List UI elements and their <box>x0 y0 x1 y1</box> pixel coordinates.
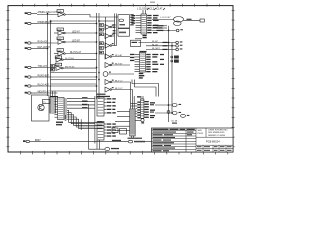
gate U2F <box>105 80 131 85</box>
ferrite bead FB3 <box>128 140 132 143</box>
border zone tick marks top <box>23 4 220 7</box>
U6 top entry wires <box>137 96 143 99</box>
IC U7 <box>97 122 107 141</box>
svg-text:RLY B7: RLY B7 <box>115 64 123 66</box>
label row above RN2 <box>50 96 58 97</box>
wire bus row extra1 <box>51 83 97 85</box>
text row above U5 <box>97 94 111 98</box>
svg-text:/CL2: /CL2 <box>149 8 155 11</box>
svg-text:DL PLS4: DL PLS4 <box>65 58 74 60</box>
gate U2B <box>105 34 115 39</box>
vertical bus line B <box>50 21 52 96</box>
U6 left wires <box>131 103 138 116</box>
gnd rail wire <box>89 148 106 150</box>
wire E2 to bus <box>37 23 97 25</box>
svg-text:RLY C7: RLY C7 <box>115 81 123 83</box>
svg-text:RL PLS A7: RL PLS A7 <box>70 51 82 54</box>
IC U8 <box>55 98 68 120</box>
oscillator circuit box B2 <box>131 40 141 46</box>
gate U1C buffer <box>57 37 65 44</box>
gate U1A buffer <box>57 10 65 17</box>
labels below U3 <box>143 35 147 39</box>
filter block FB1 <box>174 56 179 59</box>
connector pin P4 <box>176 48 179 51</box>
connector E4 input <box>25 46 51 50</box>
vertical net line H <box>116 14 118 46</box>
pin net labels U4 right <box>146 54 158 72</box>
IC U6 <box>141 99 144 118</box>
pin labels M1 <box>130 14 133 25</box>
label above U4 <box>140 51 147 52</box>
label box Q1 <box>43 100 51 104</box>
label U8 value <box>56 122 63 126</box>
connector J2 hatched <box>130 109 136 136</box>
svg-text:FSCM: FSCM <box>198 133 204 135</box>
connector E1 input <box>25 11 58 15</box>
border zone tick marks bottom <box>20 151 227 154</box>
wire below U3 <box>135 38 142 40</box>
wire bottom long <box>34 141 128 143</box>
transistor Q1 <box>38 104 44 110</box>
gate U2D <box>105 54 130 59</box>
svg-text:MD PLS4: MD PLS4 <box>65 66 75 68</box>
wire bottom cont <box>145 141 152 143</box>
vertical net line right E <box>168 26 170 122</box>
gate U1E buffer <box>55 56 96 62</box>
connector pin P5 <box>172 104 177 107</box>
J2 bottom label row <box>128 138 143 139</box>
capacitor block C1 <box>118 29 130 37</box>
pin labels U6 left <box>137 102 140 119</box>
J2 left wires <box>115 112 130 131</box>
terminator box TP1 <box>200 19 204 22</box>
svg-text:/CL47: /CL47 <box>156 8 163 11</box>
gate U1D buffer <box>54 49 65 56</box>
net label on bottom wire <box>112 140 121 141</box>
vlines U7 down <box>96 140 98 149</box>
connector E7 input <box>25 84 50 88</box>
gate input rail <box>105 17 107 59</box>
transistor Q3 <box>133 119 144 124</box>
pin labels U3 left <box>132 15 136 24</box>
wire hook B <box>135 80 157 97</box>
J2 bottom stubs <box>132 136 134 138</box>
resistor pack R2 <box>51 65 55 71</box>
wire bus row extra2 <box>51 90 97 92</box>
wire U1C out <box>65 41 96 43</box>
IC U3 <box>136 14 147 34</box>
small module K1 <box>112 128 127 134</box>
crystal Y2 <box>174 17 201 26</box>
svg-text:SIZE: SIZE <box>198 130 203 132</box>
wire clock net <box>152 19 174 21</box>
wire bus row 1 <box>51 72 97 74</box>
title block <box>152 128 234 152</box>
wire RL MD <box>146 48 176 50</box>
resistor network RN2 <box>50 97 56 113</box>
labels below U4 <box>139 73 145 79</box>
svg-text:CD 48: CD 48 <box>171 121 178 123</box>
border zone tick marks left <box>6 10 9 147</box>
wire rows to J pins <box>152 26 176 31</box>
connector pin P6 <box>172 112 177 115</box>
svg-text:PCB 89C04: PCB 89C04 <box>206 140 220 144</box>
gate U2A <box>105 25 115 30</box>
svg-text:L CLOCK7: L CLOCK7 <box>160 17 171 19</box>
net label bottom <box>134 141 145 143</box>
vertical bus line A <box>47 14 49 97</box>
wire U1A out to Y1 <box>65 15 118 18</box>
vertical bus line C <box>96 13 98 99</box>
company block <box>196 128 233 137</box>
wire to P5 <box>155 104 172 106</box>
wire bus to M1 <box>99 20 115 22</box>
gate U2E <box>105 63 130 68</box>
border zone tick marks right <box>232 10 235 147</box>
connector pin P3 <box>176 45 179 48</box>
earth lug E10 <box>105 147 110 150</box>
connector E8 input <box>25 91 51 95</box>
margin mark <box>150 2 155 3</box>
pin circles FB <box>171 56 173 58</box>
wire E6 to bus <box>37 76 97 78</box>
filter block FB2 <box>174 60 179 63</box>
wire U1D out <box>65 53 96 55</box>
ground stub <box>64 115 67 120</box>
vline 2 <box>94 96 96 144</box>
svg-text:DENVER CO 80204: DENVER CO 80204 <box>208 135 225 137</box>
pin net labels U3 right <box>147 15 158 33</box>
connector pin P1 <box>176 29 179 32</box>
node circle N1 <box>167 111 170 114</box>
transistor Q2 <box>103 72 134 77</box>
connector E2 input <box>25 21 53 25</box>
pin labels U4 left <box>130 54 134 61</box>
vline to gnd rail <box>88 104 90 149</box>
wire RL B <box>146 44 176 46</box>
svg-text:RL A7: RL A7 <box>152 40 159 43</box>
transistor group box <box>32 95 50 121</box>
wire E1 to gate U1A <box>37 14 58 16</box>
bottom cells <box>196 145 233 152</box>
pin net labels U5 <box>107 98 116 113</box>
gate U1B buffer <box>54 28 65 35</box>
vertical net line G <box>114 14 116 46</box>
wire RL A <box>139 40 176 43</box>
gate U2C <box>105 43 117 48</box>
net labels U7 inputs <box>98 121 103 129</box>
rev table text <box>153 129 195 152</box>
wire E8 to U8 block <box>37 92 58 94</box>
junction dots <box>47 13 173 114</box>
svg-text:RL B7: RL B7 <box>152 44 159 46</box>
gate U2G <box>105 87 133 92</box>
svg-text:LED B7: LED B7 <box>72 40 81 42</box>
gate U1F buffer <box>55 63 96 70</box>
vertical net line right F <box>171 43 173 114</box>
wire to P6 <box>155 112 172 114</box>
wire E3 to gate U1C <box>37 42 58 44</box>
J2 input vlines <box>131 82 135 109</box>
connector E3 input <box>25 41 49 45</box>
net labels right rows <box>157 25 168 65</box>
IC U4 <box>135 53 146 73</box>
svg-text:RLY A7: RLY A7 <box>115 54 123 57</box>
net label CD-48 <box>171 121 178 124</box>
connector E5 input <box>25 65 48 69</box>
wire E5 to gate U1F <box>37 67 56 69</box>
wire E7 to bus <box>37 85 97 87</box>
RN2 feed stubs <box>52 91 54 97</box>
sheet border frame <box>8 6 233 152</box>
IC U5 <box>97 97 107 116</box>
pin net labels U6 right <box>144 101 155 118</box>
wire hook A <box>132 80 159 97</box>
connector pin P2 <box>176 41 179 44</box>
rev table rows <box>152 128 197 152</box>
svg-text:RLY D7: RLY D7 <box>115 88 123 90</box>
pin net labels U7 <box>107 123 116 136</box>
connector pin P7 <box>181 114 186 117</box>
title band <box>196 140 233 146</box>
vertical bus line D <box>98 13 100 99</box>
net label header row <box>137 8 165 11</box>
wire bus row 2 <box>51 79 97 81</box>
wire header stub <box>142 10 144 14</box>
wire E4 down bus <box>37 48 48 50</box>
wire bus A horizontal <box>51 20 97 22</box>
resistor pack R1 <box>100 24 104 55</box>
pin labels M1 left <box>113 24 116 34</box>
svg-text:LED A7: LED A7 <box>72 30 81 33</box>
svg-text:RL MD7: RL MD7 <box>152 48 161 50</box>
wire drop bundle U8 to U7 <box>67 110 104 130</box>
wire rows U8 to U5 <box>67 98 95 108</box>
oscillator module Y1 <box>118 15 130 34</box>
connector E6 input <box>25 75 50 79</box>
wire U1B out <box>65 32 96 34</box>
bottom connector E9 <box>23 139 41 143</box>
net labels on U8 rows <box>82 97 88 108</box>
